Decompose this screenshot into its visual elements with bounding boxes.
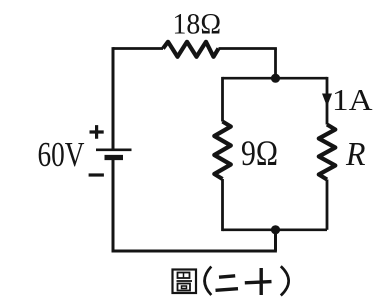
node A junction dot (top) [271, 74, 280, 83]
caption glyph 圖 (drawn) [173, 270, 197, 294]
wire top-left horizontal (battery top to resistor) [113, 47, 163, 50]
wire left branch vertical above 9-ohm resistor [221, 77, 224, 122]
caption glyph 二 (drawn) [216, 276, 239, 291]
wire left vertical above battery [112, 47, 115, 148]
wire top horizontal right of 18-ohm resistor [219, 47, 277, 50]
svg-text:R: R [345, 136, 366, 173]
battery plus sign [90, 125, 104, 139]
wire middle vertical from node B down to bottom wire [274, 230, 277, 251]
battery long thin positive plate [96, 149, 132, 152]
wire right branch vertical above R [326, 77, 329, 125]
wire bottom horizontal [112, 250, 277, 253]
wire parallel-box top horizontal [223, 77, 328, 80]
wire right branch vertical below R [326, 180, 329, 230]
wire middle vertical from top wire down to node A [274, 49, 277, 79]
caption glyph 十 (drawn) [245, 268, 272, 295]
battery minus sign [89, 173, 104, 176]
wire left branch vertical below 9-ohm resistor [221, 179, 224, 231]
svg-text:1A: 1A [332, 82, 373, 117]
wire left vertical below battery [112, 160, 115, 252]
caption paren ) [281, 266, 289, 295]
current arrow head (down triangle on wire) [322, 94, 332, 107]
svg-text:60V: 60V [38, 135, 85, 174]
resistor 18-ohm zigzag body [163, 42, 219, 57]
resistor R zigzag body [319, 125, 336, 180]
node B junction dot (bottom) [271, 225, 280, 234]
resistor 9-ohm zigzag body [214, 122, 231, 180]
wire parallel-box bottom horizontal [223, 229, 328, 232]
battery short thick negative plate [105, 155, 124, 160]
caption paren ( [205, 267, 212, 296]
svg-text:9Ω: 9Ω [241, 133, 278, 173]
svg-text:18Ω: 18Ω [173, 8, 222, 41]
